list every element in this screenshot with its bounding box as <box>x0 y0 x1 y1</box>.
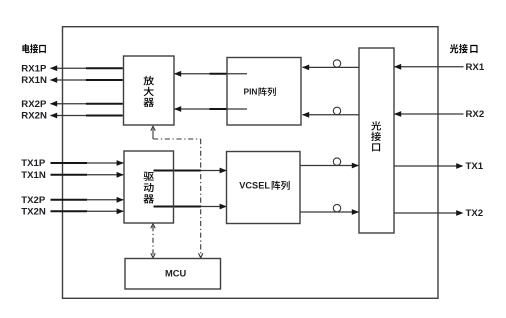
arrowhead into optical port TX1 <box>352 163 359 169</box>
wire RX1 external <box>394 62 485 73</box>
arrowhead into optical port TX2 <box>352 209 359 215</box>
label 电接口 (electrical interface) <box>22 44 45 53</box>
lens circle RX2 <box>333 107 340 114</box>
wire RX1N <box>21 75 123 86</box>
laser driver block 驱动器 <box>124 151 174 223</box>
amplifier block U1 放大器 <box>124 56 175 125</box>
arrowhead RX2P <box>50 101 57 107</box>
arrowhead into VCSEL array 2 <box>220 204 227 210</box>
optical interface block 光接口 <box>359 48 394 233</box>
label 光接口 (optical interface) <box>450 44 478 53</box>
wire VCSEL array to optical port 2 <box>300 204 359 215</box>
arrowhead into amplifier bottom <box>151 126 155 131</box>
wire RX2N <box>21 111 123 122</box>
arrowhead into MCU top (right) <box>199 253 203 257</box>
wire VCSEL array to optical port 1 <box>300 158 359 169</box>
arrowhead TX2 <box>456 210 463 216</box>
svg-text:RX1N: RX1N <box>21 75 47 86</box>
PIN photodiode array block PIN阵列 <box>227 58 301 126</box>
wire driver to VCSEL array 1 <box>154 168 227 174</box>
svg-text:TX2P: TX2P <box>21 195 46 206</box>
VCSEL laser array block VCSEL阵列 <box>227 152 301 224</box>
svg-text:TX1P: TX1P <box>21 158 46 169</box>
arrowhead RX1N <box>50 77 57 83</box>
wire TX1N <box>21 170 124 181</box>
MCU block <box>125 259 221 290</box>
wire PIN array to amplifier 1 <box>174 71 247 77</box>
wire TX2 external <box>394 208 483 219</box>
arrowhead into amplifier 2 <box>174 106 181 112</box>
wire RX1P <box>21 63 123 74</box>
lens circle TX1 <box>333 158 340 165</box>
arrowhead into driver bottom <box>151 224 155 229</box>
arrowhead TX2P <box>117 197 124 203</box>
arrowhead TX2N <box>117 208 124 214</box>
arrowhead into PIN array 1 <box>302 65 309 71</box>
arrowhead RX2 into optical port <box>394 111 401 117</box>
lens circle TX2 <box>333 204 340 211</box>
svg-text:TX2N: TX2N <box>21 207 46 218</box>
arrowhead into amplifier 1 <box>174 71 181 77</box>
wire optical port to PIN array 2 <box>302 107 359 118</box>
arrowhead into MCU top (left) <box>151 253 155 257</box>
svg-text:TX1N: TX1N <box>21 170 46 181</box>
svg-text:VCSEL: VCSEL <box>239 181 270 191</box>
svg-text:MCU: MCU <box>165 269 186 279</box>
svg-text:RX1P: RX1P <box>21 63 47 74</box>
arrowhead TX1 <box>456 163 463 169</box>
wire RX2 external <box>394 109 484 120</box>
wire TX2N <box>21 207 124 218</box>
svg-text:PIN: PIN <box>244 87 258 97</box>
wire TX2P <box>21 195 124 206</box>
arrowhead TX1P <box>117 160 124 166</box>
svg-text:RX2: RX2 <box>466 109 485 120</box>
svg-text:TX2: TX2 <box>466 208 484 219</box>
svg-text:RX2N: RX2N <box>21 111 47 122</box>
wire PIN array to amplifier 2 <box>174 106 247 112</box>
wire driver to VCSEL array 2 <box>154 204 227 210</box>
arrowhead RX1P <box>50 65 57 71</box>
svg-text:RX2P: RX2P <box>21 99 47 110</box>
wire RX2P <box>21 99 123 110</box>
arrowhead RX1 into optical port <box>394 64 401 70</box>
svg-text:TX1: TX1 <box>466 161 484 172</box>
wire optical port to PIN array 1 <box>302 60 359 71</box>
arrowhead into PIN array 2 <box>302 112 309 118</box>
arrowhead TX1N <box>117 172 124 178</box>
control line MCU to amplifier (dash-dot) <box>151 126 203 258</box>
arrowhead RX2N <box>50 113 57 119</box>
module outline box <box>63 27 439 299</box>
arrowhead into VCSEL array 1 <box>220 168 227 174</box>
control line MCU to driver (dash-dot) <box>151 224 155 258</box>
wire TX1 external <box>394 161 484 172</box>
wire TX1P <box>21 158 124 169</box>
lens circle RX1 <box>333 60 340 67</box>
svg-text:RX1: RX1 <box>466 62 485 73</box>
